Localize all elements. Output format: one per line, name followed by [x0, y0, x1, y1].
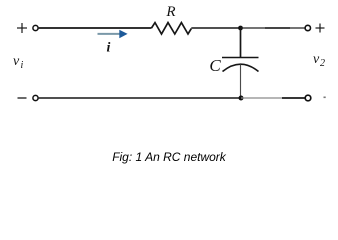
node A junction dot top — [238, 26, 243, 31]
svg-text:i: i — [107, 41, 111, 56]
terminal plus (top-right polarity) — [316, 24, 325, 33]
svg-text:2: 2 — [320, 58, 325, 69]
terminal plus (top-left polarity) — [17, 23, 27, 33]
caption Fig: 1 An RC network — [0, 150, 338, 164]
resistor R — [152, 23, 192, 34]
capacitor C top plate — [222, 57, 259, 59]
node B junction dot bottom — [239, 96, 244, 101]
terminal circle bottom-left — [33, 95, 38, 100]
terminal circle top-left — [33, 25, 38, 30]
wire top-left to resistor — [39, 27, 152, 29]
wire node B to bottom-right terminal — [241, 97, 282, 99]
capacitor C curved plate — [223, 64, 259, 71]
current arrow i — [98, 30, 128, 39]
terminal minus (bottom-left polarity) — [18, 97, 27, 99]
wire thicker segment (top-right) — [265, 27, 290, 29]
terminal circle top-right — [305, 25, 310, 30]
wire bottom-left to node B — [39, 97, 241, 99]
svg-text:i: i — [21, 60, 24, 71]
wire resistor to node A — [191, 27, 240, 29]
terminal minus remnant (bottom-right) — [324, 97, 326, 99]
wire segment near bottom-right terminal — [282, 97, 305, 99]
wire node A to top-right terminal — [241, 27, 305, 29]
svg-text:R: R — [165, 4, 175, 20]
capacitor C top lead — [240, 28, 242, 58]
svg-text:C: C — [209, 56, 221, 75]
capacitor C bottom lead — [240, 65, 242, 98]
terminal circle bottom-right — [305, 95, 311, 101]
svg-text:v: v — [313, 52, 320, 67]
svg-text:v: v — [13, 54, 20, 69]
